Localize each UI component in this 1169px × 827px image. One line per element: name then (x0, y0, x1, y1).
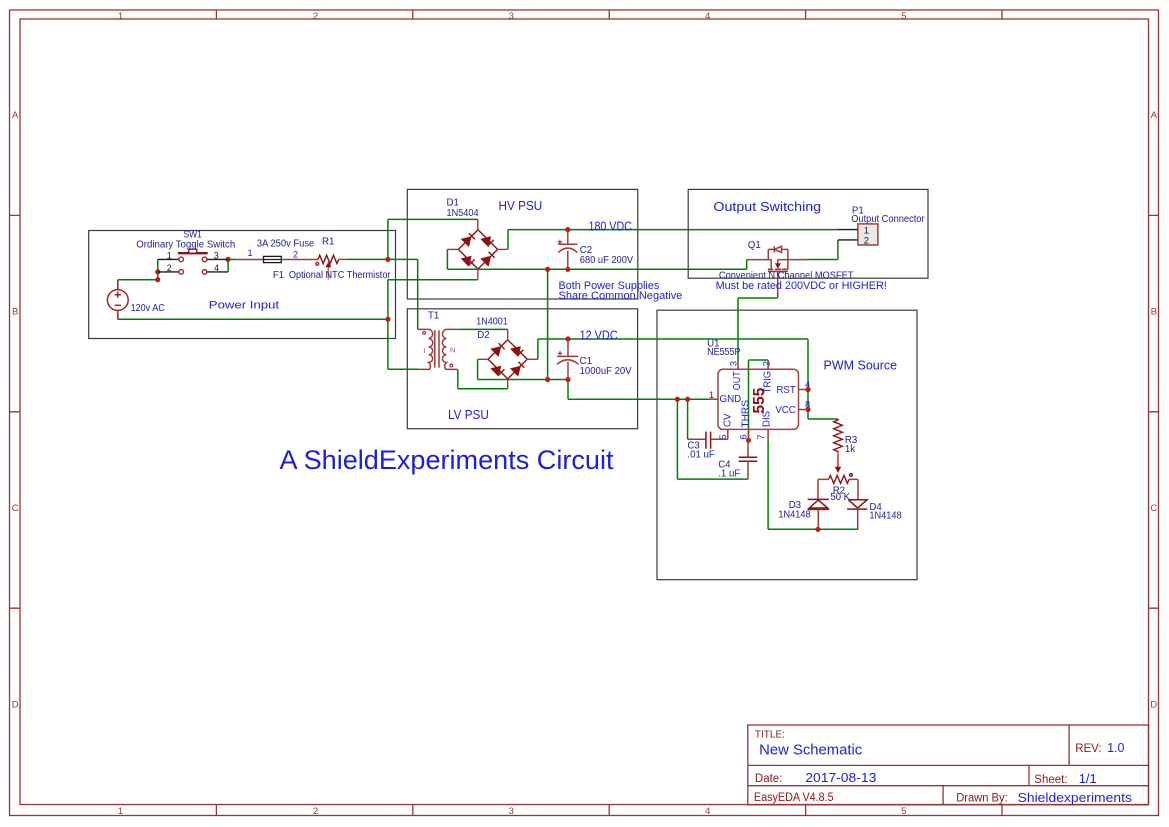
svg-text:GND: GND (720, 394, 742, 405)
svg-text:.01 uF: .01 uF (687, 449, 715, 460)
svg-text:3: 3 (509, 11, 514, 22)
wire down to T1 primary top (417, 259, 419, 329)
wire D2 left loop and LV negative rail (478, 359, 568, 379)
svg-text:2: 2 (864, 235, 869, 246)
svg-text:TRIG: TRIG (763, 371, 774, 393)
drain wire to right (778, 259, 807, 261)
capacitor C4 (739, 440, 758, 479)
section box HV PSU (407, 189, 638, 299)
wire D1 right to 180VDC rail (508, 230, 838, 250)
gate plate (768, 270, 788, 272)
svg-text:Output Switching: Output Switching (713, 199, 821, 214)
svg-text:NE555P: NE555P (707, 347, 740, 358)
svg-text:3A 250v Fuse: 3A 250v Fuse (257, 238, 314, 249)
polarity dots (423, 332, 426, 335)
frame row letters left (12, 110, 19, 710)
wire GND loop to C4 bottom (677, 399, 748, 479)
bridge rectifier D1 (447, 219, 508, 279)
wire MOSFET gate to 555 OUT (738, 298, 778, 363)
svg-text:2017-08-13: 2017-08-13 (805, 770, 876, 785)
svg-text:Date:: Date: (755, 773, 783, 785)
svg-text:1: 1 (118, 806, 123, 817)
wire switch left vertical (157, 259, 159, 279)
section box PWM Source (657, 310, 917, 580)
transistor Q1 N-MOSFET (747, 246, 807, 298)
wire common negative HV-LV vertical (547, 269, 549, 379)
svg-text:Optional NTC Thermistor: Optional NTC Thermistor (289, 270, 391, 281)
resistor R3 (834, 419, 843, 453)
title block (748, 725, 1149, 805)
svg-text:2: 2 (313, 806, 318, 817)
svg-text:B: B (12, 307, 18, 318)
toggle bar (178, 252, 208, 254)
switch pin numbers (167, 250, 219, 273)
section box LV PSU (407, 309, 637, 429)
wire neutral vertical (387, 280, 389, 370)
svg-text:F1: F1 (273, 270, 284, 281)
svg-text:3: 3 (509, 806, 514, 817)
svg-text:5: 5 (901, 11, 906, 22)
voltage source V 120v AC (107, 280, 128, 320)
svg-text:OUT: OUT (732, 371, 743, 390)
body diode symbol (773, 246, 775, 252)
core (435, 330, 439, 367)
svg-text:1k: 1k (845, 444, 855, 455)
svg-text:T1: T1 (428, 310, 439, 321)
svg-text:Sheet:: Sheet: (1034, 774, 1067, 786)
svg-text:50 K: 50 K (830, 492, 850, 503)
frame row letters right (1150, 110, 1157, 710)
svg-text:Drawn By:: Drawn By: (956, 793, 1008, 805)
frame column numbers top (118, 11, 907, 22)
IC U1 555 timer (709, 360, 810, 440)
frame column numbers bottom (118, 806, 907, 817)
diode triangles all pointing NE (461, 236, 492, 267)
contact bars (768, 268, 788, 270)
svg-text:1/1: 1/1 (1079, 771, 1097, 786)
svg-text:180 VDC: 180 VDC (589, 219, 632, 233)
svg-text:D1: D1 (447, 197, 459, 208)
svg-text:8: 8 (805, 399, 810, 410)
wire D2 bottom to T1 secondary bottom (458, 369, 508, 388)
svg-text:2: 2 (293, 250, 298, 260)
svg-text:A: A (1151, 110, 1158, 121)
wire thermistor to T1/D1 junction (347, 258, 418, 260)
wire D2 right to 12VDC rail (538, 339, 808, 359)
svg-text:1: 1 (709, 390, 714, 401)
svg-text:D: D (12, 699, 19, 710)
pin names (720, 371, 796, 428)
svg-text:Share Common Negative: Share Common Negative (559, 290, 683, 302)
cathode bars (469, 233, 495, 265)
svg-text:1: 1 (248, 248, 253, 258)
svg-text:N: N (450, 345, 455, 354)
svg-text:12 VDC: 12 VDC (580, 329, 618, 343)
svg-text:2: 2 (167, 263, 172, 273)
svg-text:680 uF 200V: 680 uF 200V (580, 255, 634, 266)
body arrow of Q1 (775, 263, 781, 268)
svg-text:1: 1 (167, 250, 172, 260)
wire to D1 bottom (388, 279, 478, 281)
primary winding (418, 329, 433, 369)
svg-text:1N5404: 1N5404 (447, 208, 480, 219)
wire MOSFET source step (746, 260, 748, 270)
wire LV ground out to 555 GND (568, 380, 710, 400)
svg-text:3: 3 (214, 250, 219, 260)
body diode top line (768, 248, 788, 250)
svg-text:4: 4 (214, 263, 219, 273)
capacitor C3 (688, 432, 728, 449)
thermistor R1 (316, 255, 347, 265)
svg-text:5: 5 (901, 806, 906, 817)
wire source bottom rail (118, 318, 388, 320)
diode D4 (847, 500, 867, 509)
svg-text:A: A (12, 110, 19, 121)
R3 lead arrow to R2 wiper (837, 454, 839, 469)
svg-text:7: 7 (756, 434, 767, 439)
wire switch out (228, 258, 236, 260)
JUNCTION DOTS (155, 227, 820, 532)
svg-text:4: 4 (805, 379, 810, 390)
transformer T1 (418, 329, 458, 369)
wire TRIG loop to THRS (749, 360, 769, 440)
wire live up to D1 top (388, 219, 478, 259)
svg-text:DIS: DIS (762, 410, 773, 427)
svg-text:C: C (12, 503, 19, 514)
wire GND branch to C3 (687, 399, 689, 439)
svg-text:.1 uF: .1 uF (718, 469, 740, 480)
wire tie pins 3-4 (227, 259, 229, 272)
diode D3 (808, 499, 829, 509)
svg-text:I: I (424, 346, 426, 355)
secondary winding (442, 329, 457, 369)
svg-text:VCC: VCC (775, 405, 795, 416)
wire T1 secondary top to D2 (458, 328, 508, 330)
svg-text:Shieldexperiments: Shieldexperiments (1018, 790, 1133, 805)
source wire from left (747, 259, 772, 261)
svg-text:120v AC: 120v AC (131, 303, 165, 314)
svg-text:4: 4 (705, 11, 710, 22)
svg-text:D: D (1150, 699, 1157, 710)
svg-text:1000uF 20V: 1000uF 20V (580, 366, 633, 377)
gate pin down (777, 271, 779, 298)
svg-text:2: 2 (761, 361, 772, 366)
connector P1 (838, 224, 878, 247)
svg-text:Power Input: Power Input (209, 299, 279, 311)
svg-text:Output Connector: Output Connector (851, 214, 925, 225)
pin wires black (158, 259, 228, 272)
svg-text:1N4148: 1N4148 (869, 510, 901, 521)
svg-text:CV: CV (723, 413, 734, 427)
svg-text:Must be rated 200VDC or HIGHER: Must be rated 200VDC or HIGHER! (716, 280, 887, 292)
svg-text:New Schematic: New Schematic (759, 743, 862, 759)
wire D1 left loop and common negative rail (447, 249, 746, 269)
thermistor arrow (327, 266, 329, 280)
svg-text:2: 2 (313, 11, 318, 22)
svg-text:6: 6 (739, 434, 750, 439)
svg-text:1: 1 (118, 11, 123, 22)
svg-text:RST: RST (776, 385, 795, 396)
wire source top to switch (118, 279, 158, 281)
svg-text:LV PSU: LV PSU (448, 408, 489, 422)
svg-text:1N4148: 1N4148 (778, 510, 810, 521)
svg-text:4: 4 (705, 806, 710, 817)
svg-text:THRS: THRS (740, 399, 751, 427)
body diode verticals (767, 249, 769, 259)
potentiometer R2 (829, 474, 853, 484)
svg-text:1.0: 1.0 (1107, 741, 1124, 755)
svg-text:1N4001: 1N4001 (476, 317, 507, 328)
wire DIS down and PWM bottom rail (768, 439, 858, 529)
svg-text:TITLE:: TITLE: (755, 729, 785, 740)
svg-text:A ShieldExperiments Circuit: A ShieldExperiments Circuit (280, 445, 614, 475)
bridge rectifier D2 (478, 329, 538, 388)
section box Output Switching (688, 189, 928, 278)
svg-text:REV:: REV: (1075, 743, 1101, 755)
fuse F1 (237, 256, 319, 262)
svg-text:3: 3 (729, 361, 740, 366)
svg-text:HV PSU: HV PSU (499, 199, 543, 213)
switch SW1 (158, 249, 228, 274)
svg-text:D2: D2 (477, 330, 489, 341)
pole contact circles (179, 257, 207, 274)
pin numbers (709, 361, 810, 440)
wire to T1 primary bottom (388, 368, 419, 370)
stubs (447, 219, 508, 279)
capacitor C2 (558, 230, 578, 270)
svg-text:Ordinary Toggle Switch: Ordinary Toggle Switch (136, 240, 235, 251)
svg-text:EasyEDA V4.8.5: EasyEDA V4.8.5 (754, 792, 834, 804)
section box Power Input (89, 231, 396, 339)
wire P1 pin2 to MOSFET (807, 240, 838, 260)
svg-text:R1: R1 (322, 236, 334, 247)
svg-text:PWM Source: PWM Source (824, 358, 898, 372)
WIRES (118, 219, 858, 529)
svg-text:Q1: Q1 (748, 240, 761, 251)
wire VCC-RST vertical and R3 feed (808, 339, 838, 419)
svg-text:B: B (1151, 307, 1157, 318)
svg-text:C: C (1150, 503, 1157, 514)
capacitor C1 (557, 339, 579, 380)
